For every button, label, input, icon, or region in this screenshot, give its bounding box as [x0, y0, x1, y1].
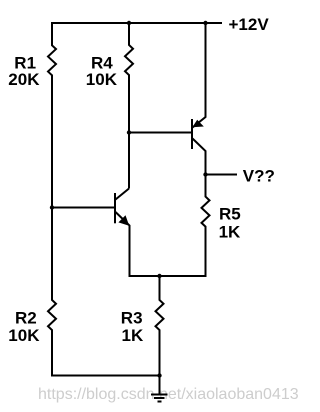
svg-text:20K: 20K — [8, 70, 40, 89]
svg-text:1K: 1K — [122, 326, 144, 345]
svg-text:+12V: +12V — [229, 15, 270, 34]
svg-text:V??: V?? — [243, 166, 275, 185]
svg-text:10K: 10K — [8, 326, 40, 345]
svg-text:R5: R5 — [219, 204, 241, 223]
svg-text:https://blog.csdn.net/xiaolaob: https://blog.csdn.net/xiaolaoban0413 — [38, 386, 299, 403]
svg-text:10K: 10K — [86, 70, 118, 89]
svg-text:1K: 1K — [219, 222, 241, 241]
svg-text:R2: R2 — [15, 308, 37, 327]
svg-text:R3: R3 — [121, 308, 143, 327]
